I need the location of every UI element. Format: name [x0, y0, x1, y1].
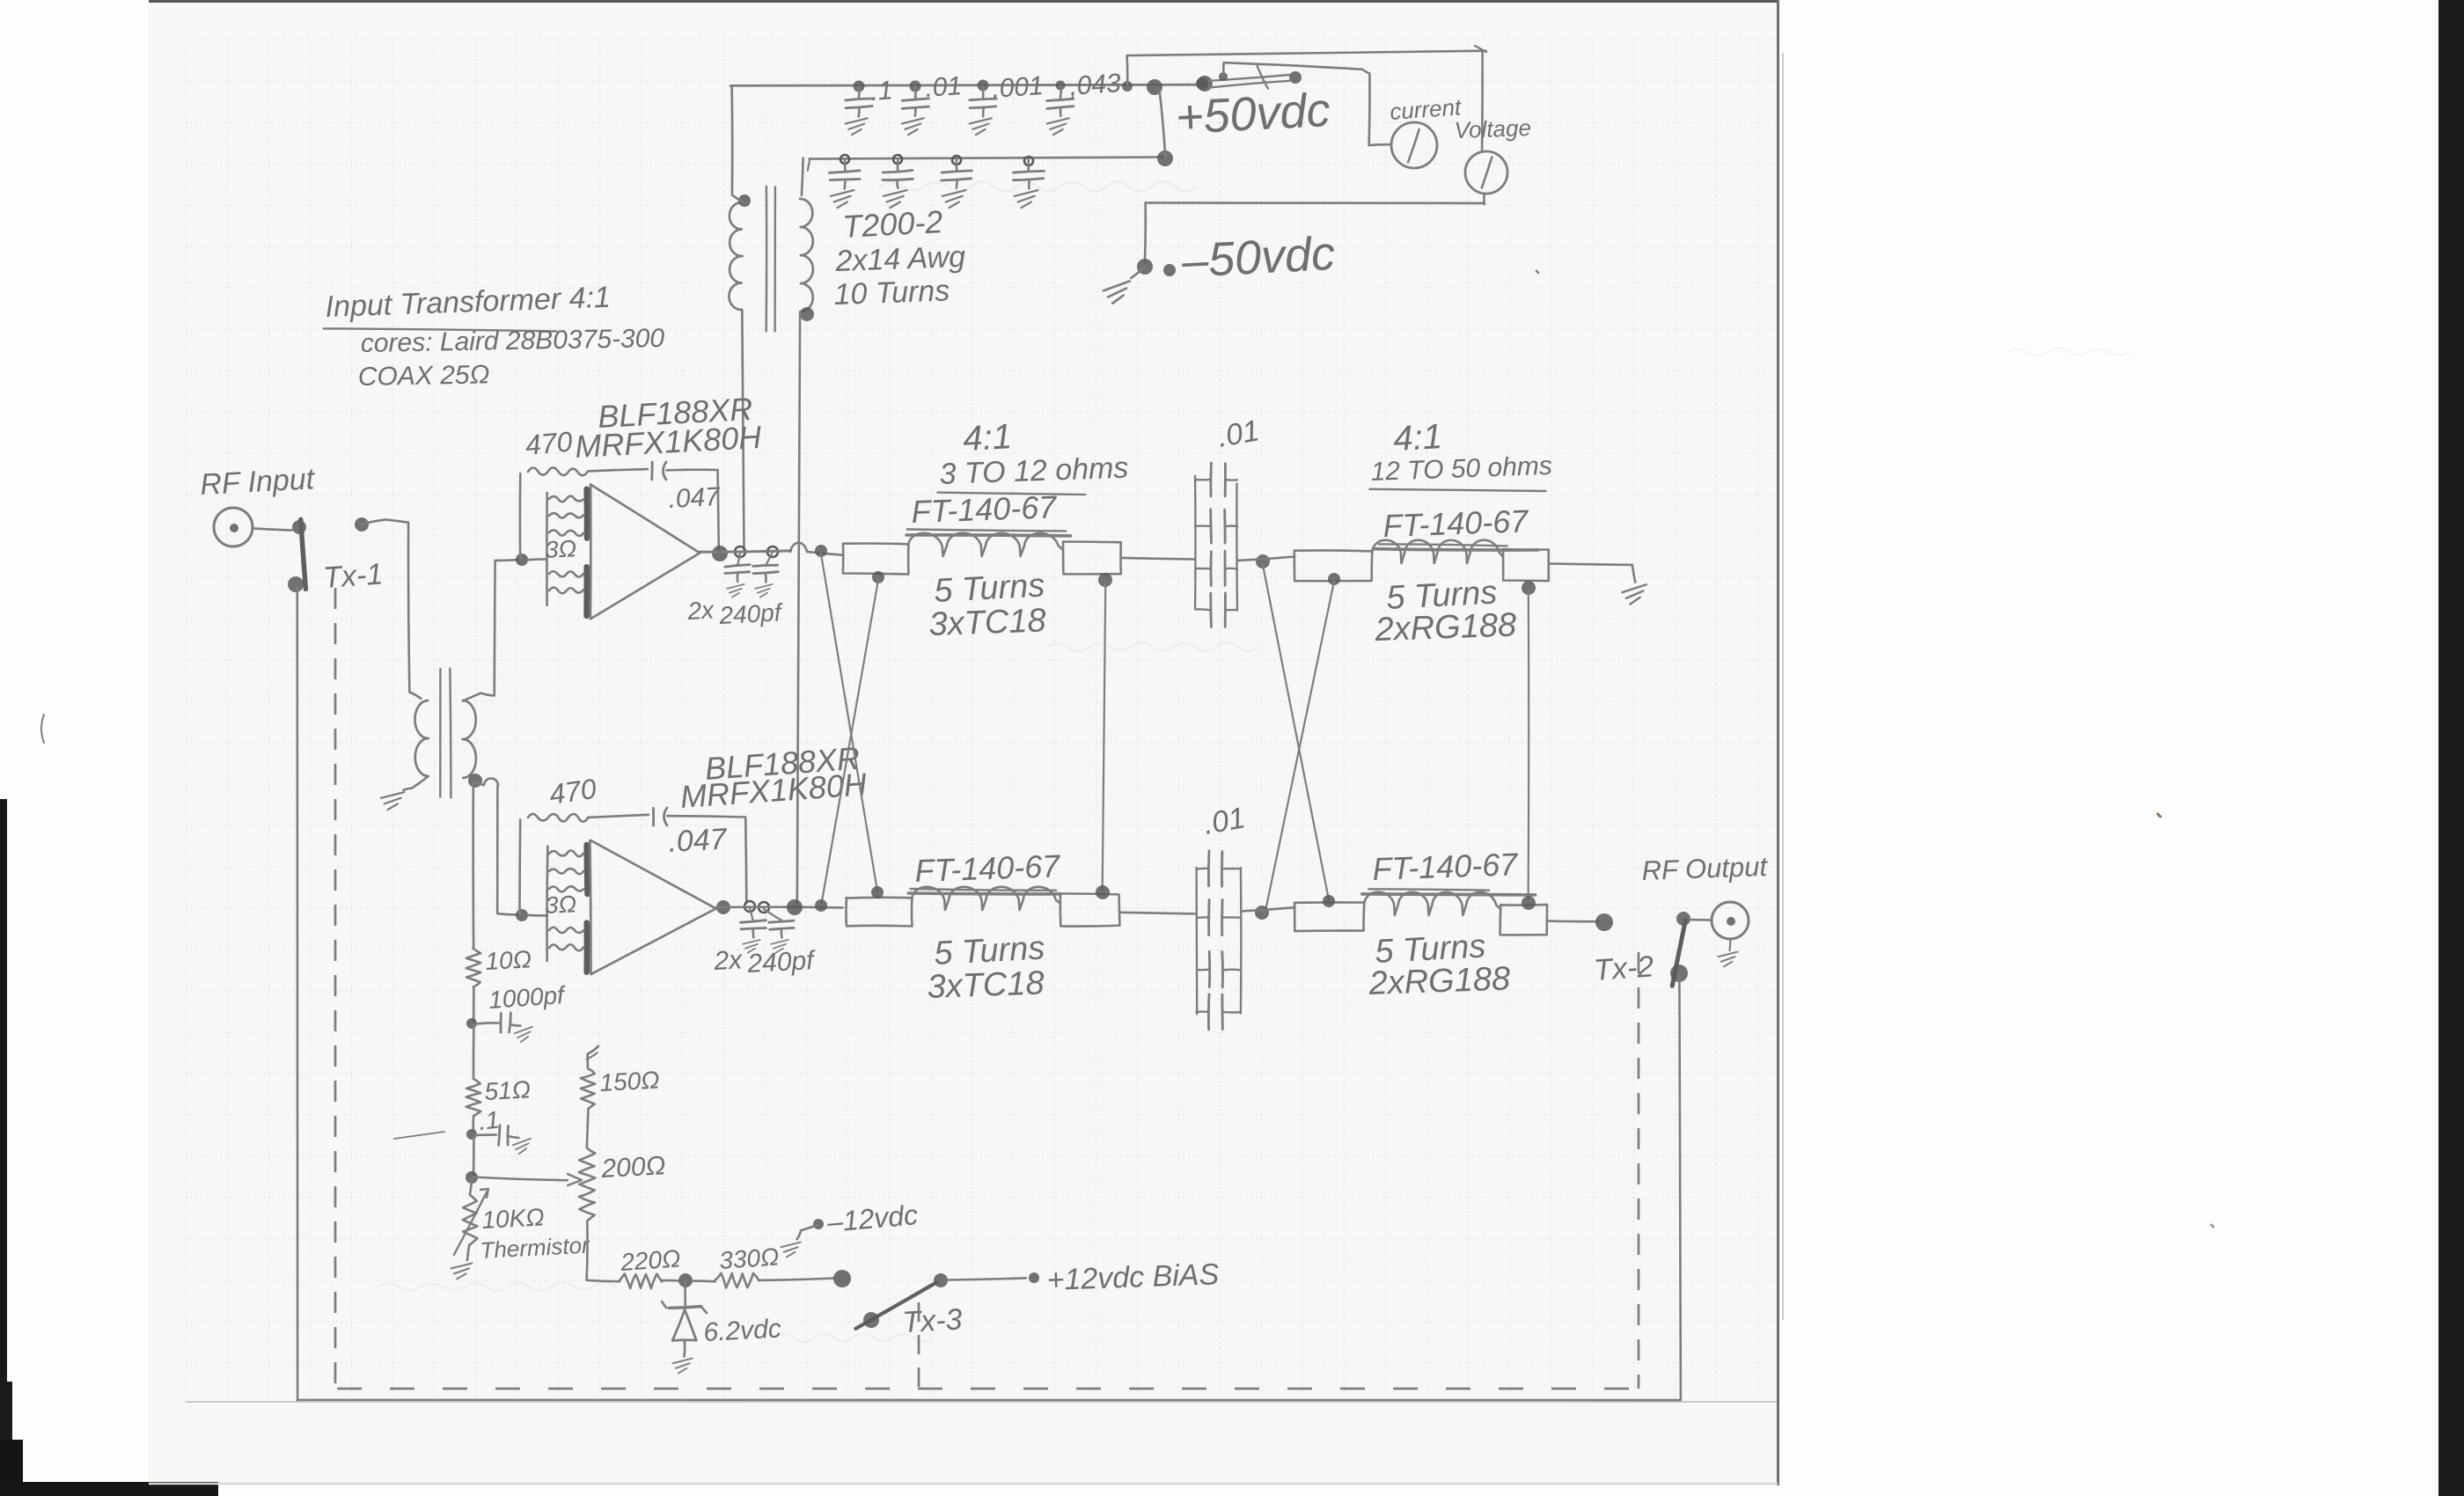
node +12 terminal: [1029, 1272, 1039, 1283]
wire X cross right B: [1265, 581, 1334, 910]
wire T5 out to C10: [1120, 913, 1197, 914]
transformer T4 right box: [1503, 549, 1549, 581]
node chain B: [466, 1129, 477, 1140]
label Tx-2: [1593, 950, 1655, 987]
capacitor C11 .1 bypass: [846, 76, 894, 135]
transformer T4 core bar: [1373, 549, 1538, 550]
svg-text:.01: .01: [1201, 801, 1248, 841]
wire enclosure dashed right: [1638, 952, 1640, 1389]
wire U2 node chain: [472, 782, 474, 948]
svg-text:Voltage: Voltage: [1454, 114, 1531, 143]
wire T6 out: [1547, 920, 1598, 922]
capacitor C6 feedback: [653, 808, 667, 825]
transformer T4 winding: [1372, 540, 1503, 563]
meter M2 voltage: [1454, 114, 1531, 194]
label T6 core: [1368, 846, 1520, 890]
label R4 3ohm: [545, 891, 577, 919]
wire T3 bottom to T5: [1103, 582, 1106, 889]
label C4 C5 2x 240pf: [686, 596, 785, 629]
resistor R7 150ohm: [581, 1069, 595, 1109]
label RF Input: [199, 462, 316, 502]
wire enclosure dashed left: [334, 588, 337, 1389]
node -12 terminal: [813, 1219, 824, 1229]
svg-text:1000pf: 1000pf: [488, 981, 568, 1014]
label R7 150ohm: [599, 1066, 661, 1096]
transformer T6 core bar: [1362, 894, 1536, 895]
svg-text:FT-140-67: FT-140-67: [1382, 502, 1530, 544]
thermistor RT1 10K: [454, 1179, 488, 1261]
svg-text:3xTC18: 3xTC18: [928, 602, 1046, 643]
svg-text:220Ω: 220Ω: [619, 1244, 681, 1276]
wire bus2 to T1 secondary: [802, 158, 803, 196]
ground C11: [514, 1027, 534, 1043]
wire bus2 right riser: [1160, 91, 1166, 158]
node T3 upper wire X: [815, 545, 827, 557]
svg-text:.01: .01: [924, 71, 963, 103]
transformer T6 left box: [1294, 902, 1364, 931]
svg-text:.001: .001: [991, 71, 1045, 104]
label C6 .047: [667, 823, 728, 859]
svg-text:330Ω: 330Ω: [718, 1243, 780, 1274]
wire T3 out to C9: [1122, 558, 1194, 560]
resistor R2 gate 3ohm bank: [549, 496, 583, 594]
capacitor C24 bypass: [1014, 159, 1045, 208]
wire T1 left winding to upper drain: [742, 310, 744, 550]
wire bias 1: [662, 1280, 678, 1282]
label T3 turns: [928, 567, 1046, 643]
wire X cross right A: [1263, 563, 1329, 899]
capacitor C22 bypass: [883, 159, 913, 208]
label T5 core: [911, 847, 1062, 891]
svg-text:RF Input: RF Input: [199, 462, 316, 502]
wire bias 2: [692, 1280, 715, 1282]
wire pot bottom: [587, 1221, 620, 1281]
svg-text:2x: 2x: [686, 596, 715, 625]
resistor R1 470 feedback: [528, 467, 588, 475]
node -50vdc terminal: [1131, 259, 1176, 278]
node chain C: [466, 1171, 478, 1184]
label R3 470: [547, 773, 598, 810]
wire chain 2: [473, 1025, 475, 1079]
svg-text:–50vdc: –50vdc: [1179, 227, 1336, 288]
node U2 input: [516, 909, 528, 921]
svg-text:200Ω: 200Ω: [600, 1151, 667, 1184]
node T5 in top: [871, 886, 884, 898]
label -12vdc: [825, 1199, 919, 1238]
label input transformer note: [324, 281, 665, 392]
wire U2 input rail: [527, 847, 547, 962]
svg-text:current: current: [1389, 93, 1463, 125]
transistor Q1 gate bars: [583, 489, 590, 616]
label R6 51ohm: [484, 1075, 532, 1105]
capacitor C3 feedback: [652, 462, 666, 480]
wire U1 feedback left riser: [519, 473, 522, 560]
transformer T3 right box: [1063, 542, 1121, 575]
wire -12 to ground: [797, 1225, 819, 1240]
svg-text:2xRG188: 2xRG188: [1368, 960, 1511, 1002]
svg-text:240pf: 240pf: [746, 946, 817, 979]
svg-text:150Ω: 150Ω: [599, 1066, 661, 1096]
wire C9 to T4: [1237, 557, 1294, 561]
resistor R10 330ohm: [715, 1273, 759, 1288]
wire TX2 to bottom return: [1679, 977, 1681, 1399]
label C10 .01: [1201, 801, 1248, 841]
svg-text:470: 470: [547, 773, 598, 810]
svg-text:.01: .01: [1215, 414, 1262, 454]
relay TX1 fixed contact B: [355, 517, 369, 532]
node T2 secondary bottom: [468, 774, 482, 788]
label R9 220ohm: [619, 1244, 681, 1276]
ground J3: [1718, 952, 1737, 967]
transformer T2 input left winding: [409, 693, 429, 777]
resistor R6 51ohm: [466, 1079, 481, 1116]
node T3 in bottom: [872, 571, 884, 583]
wire R7 to pot: [587, 1110, 589, 1148]
wire T4 out to ground: [1549, 564, 1635, 583]
capacitor C10 .01 stack: [1197, 851, 1242, 1030]
label U1 part: [574, 391, 763, 465]
svg-text:10Ω: 10Ω: [485, 945, 532, 975]
label D1 6.2vdc: [703, 1314, 782, 1347]
wire feedback: [588, 469, 648, 471]
relay TX3 armature: [855, 1283, 935, 1329]
op-amp U2 BLF188XR triangle: [590, 840, 715, 974]
diode D1 zener 6.2v: [662, 1281, 707, 1356]
wire feedback right: [667, 470, 719, 550]
relay TX2 fixed contact: [1676, 912, 1690, 926]
ground T2 primary: [381, 792, 405, 810]
transformer T4 left box: [1294, 550, 1373, 581]
svg-text:10KΩ: 10KΩ: [481, 1203, 546, 1234]
label R10 330ohm: [718, 1243, 780, 1274]
svg-text:.1: .1: [477, 1106, 500, 1135]
capacitor C8 240pf: [764, 909, 795, 953]
relay TX1 armature: [288, 520, 305, 593]
wire bias out: [949, 1278, 1026, 1280]
capacitor C12 .1: [476, 1126, 519, 1146]
svg-text:cores: Laird 28B0375-300: cores: Laird 28B0375-300: [361, 324, 665, 358]
transformer T1 T200-2 core: [766, 187, 775, 332]
svg-text:10 Turns: 10 Turns: [833, 274, 950, 312]
svg-text:+50vdc: +50vdc: [1174, 84, 1331, 144]
ground RT1: [451, 1263, 473, 1279]
svg-text:FT-140-67: FT-140-67: [914, 847, 1062, 889]
capacitor C14 ,043 bypass: [1047, 69, 1122, 135]
wire T2 primary to ground: [403, 776, 428, 789]
svg-text:COAX 25Ω: COAX 25Ω: [358, 360, 490, 392]
wire U1 input rail: [527, 493, 546, 605]
wire decoupling bus 2: [808, 150, 1173, 171]
label C9 .01: [1215, 414, 1262, 454]
potentiometer R8 200ohm: [579, 1148, 596, 1221]
label T6 turns: [1368, 928, 1511, 1002]
wire J3 to ground: [1728, 939, 1731, 950]
wire enclosure dashed bottom: [337, 1388, 1639, 1390]
node bias A: [678, 1273, 693, 1287]
label TLT2 core: [1379, 502, 1530, 546]
svg-text:.1: .1: [869, 76, 893, 106]
svg-text:3Ω: 3Ω: [545, 535, 577, 563]
wire X cross left B: [822, 579, 879, 903]
transformer T1 T200-2 right winding: [800, 199, 814, 321]
svg-text:Tx-3: Tx-3: [901, 1302, 963, 1339]
wire 150ohm top flag: [587, 1046, 598, 1068]
node T4 in bottom: [1328, 573, 1340, 585]
resistor R9 220ohm: [620, 1274, 662, 1289]
wire chain 4: [473, 1137, 475, 1176]
wire T4 bottom to T6: [1527, 590, 1529, 899]
svg-text:,043: ,043: [1068, 69, 1122, 101]
label TLT2 impedance: [1369, 451, 1552, 491]
label R2 3ohm: [545, 535, 577, 563]
op-amp U1 BLF188XR triangle: [590, 485, 700, 620]
label U2 part: [679, 740, 869, 815]
wire U2 feedback left riser: [518, 820, 521, 915]
label C12 .1: [477, 1106, 500, 1135]
label +50vdc: [1174, 84, 1331, 144]
wire TX1 to input transformer: [362, 519, 410, 692]
transformer T3 core bar: [906, 533, 1071, 538]
label Tx-1: [322, 557, 384, 595]
label Tx-3: [901, 1302, 963, 1339]
svg-text:.047: .047: [668, 482, 722, 514]
svg-text:240pf: 240pf: [718, 598, 785, 629]
svg-text:3Ω: 3Ω: [545, 891, 577, 919]
wire chain 3: [472, 1116, 474, 1132]
wire C10 to T6: [1241, 907, 1294, 911]
label C3 .047: [668, 482, 722, 514]
svg-text:2x14 Awg: 2x14 Awg: [834, 240, 966, 278]
svg-text:3xTC18: 3xTC18: [927, 964, 1045, 1006]
wire wiper: [473, 1174, 583, 1185]
wire +50V top bus: [730, 76, 1213, 95]
svg-text:RF Output: RF Output: [1641, 851, 1769, 886]
wire bias 3: [759, 1279, 834, 1280]
relay TX3 fixed contact: [934, 1273, 948, 1287]
wire T1 right winding to lower drain: [797, 312, 800, 905]
transformer T5 winding: [912, 887, 1060, 910]
wire U1 output: [700, 543, 843, 555]
wire U2 feedback: [588, 815, 649, 818]
transformer T5 right box: [1060, 893, 1120, 926]
transformer T3 left box: [843, 544, 909, 575]
svg-text:470: 470: [524, 425, 574, 461]
capacitor C13 .001 bypass: [970, 71, 1045, 135]
capacitor C23 bypass: [942, 159, 972, 209]
wire meter loop inner: [1219, 62, 1390, 145]
svg-text:4:1: 4:1: [962, 417, 1013, 458]
label +12vdc BiAS: [1046, 1258, 1220, 1297]
node U2 output: [716, 900, 769, 914]
capacitor C12 .01 bypass: [902, 71, 963, 135]
node T5 lower wire X: [815, 899, 827, 912]
label R1 470: [524, 425, 574, 461]
svg-text:6.2vdc: 6.2vdc: [703, 1314, 782, 1347]
wire ground return bottom: [298, 1399, 1682, 1402]
svg-text:2x: 2x: [713, 945, 744, 976]
label C7 C8 2x 240pf: [713, 945, 817, 979]
wire T2 secondary top to U1 input: [463, 560, 519, 701]
wire U2 output: [716, 906, 843, 908]
svg-text:+12vdc BiAS: +12vdc BiAS: [1046, 1258, 1220, 1297]
label TLT1 core: [907, 488, 1067, 531]
relay TX1 fixed contact A: [292, 520, 306, 534]
svg-text:4:1: 4:1: [1392, 417, 1443, 458]
svg-text:T200-2: T200-2: [841, 203, 943, 245]
label C11 1000pf: [488, 981, 568, 1014]
label TLT1 ratio: [962, 417, 1013, 458]
svg-text:Tx-1: Tx-1: [322, 557, 384, 595]
ground C12: [512, 1139, 532, 1155]
label RT1: [480, 1203, 591, 1264]
node C9 out: [1256, 554, 1270, 568]
node T6 out: [1595, 913, 1613, 931]
wire meter loop outer: [1127, 46, 1486, 262]
label -50vdc: [1179, 227, 1336, 288]
meter M1 current: [1389, 93, 1463, 168]
wire bus to T1 left winding: [732, 86, 743, 202]
label T1 value: [833, 203, 966, 312]
resistor R3 470 feedback: [528, 814, 588, 822]
transformer T5 left box: [846, 898, 912, 927]
transformer T6 right box: [1500, 905, 1548, 935]
wire ground return left: [296, 588, 298, 1400]
connector J3 RF output BNC: [1690, 902, 1749, 939]
transformer T3 winding: [908, 533, 1063, 556]
node T5 out top: [1096, 885, 1110, 899]
svg-text:FT-140-67: FT-140-67: [1372, 846, 1520, 887]
node T3 out bottom: [1098, 573, 1112, 587]
capacitor C21 bypass: [829, 160, 860, 209]
resistor R4 gate 3ohm bank: [549, 850, 583, 950]
transformer T5 core bar: [908, 891, 1060, 896]
relay TX2 armature: [1670, 920, 1688, 986]
svg-text:51Ω: 51Ω: [484, 1075, 532, 1105]
label T4 turns: [1374, 574, 1517, 649]
node TX3 common: [833, 1270, 851, 1287]
capacitor C5 240pf: [753, 553, 779, 597]
ground -50vdc: [1103, 281, 1132, 304]
ground -12vdc: [781, 1243, 800, 1258]
connector J2 RF input BNC: [214, 508, 292, 546]
capacitor C9 .01 stack: [1195, 463, 1237, 627]
node T4 out bottom: [1522, 581, 1536, 595]
capacitor C11 1000pf: [476, 1013, 520, 1032]
ground T4 output: [1622, 584, 1647, 605]
svg-text:Tx-2: Tx-2: [1593, 950, 1655, 987]
wire T2 secondary bottom to U2 input: [475, 779, 519, 915]
node T1 to U2 drain junction: [787, 899, 803, 915]
node chain A: [466, 1018, 477, 1029]
connector J1 +50V feed: [1196, 66, 1302, 91]
node T6 in top: [1323, 895, 1335, 907]
label R8 200ohm: [600, 1151, 667, 1184]
node C10 out: [1255, 906, 1269, 920]
capacitor C4 240pf: [725, 553, 750, 597]
wire enclosure dashed tx3: [918, 1302, 920, 1390]
svg-text:FT-140-67: FT-140-67: [911, 488, 1059, 530]
label TLT1 impedance: [938, 451, 1129, 495]
transformer T1 T200-2 left winding: [729, 194, 751, 310]
resistor R5 10ohm: [466, 949, 481, 987]
node U1 input: [516, 554, 528, 566]
node T6 top right: [1522, 896, 1536, 910]
transformer T2 right winding: [463, 700, 476, 778]
ground D1: [672, 1359, 692, 1374]
capacitor C7 240pf: [741, 908, 766, 952]
transformer T2 core: [440, 669, 451, 798]
label RF Output: [1641, 851, 1769, 886]
wire X cross left A: [821, 554, 877, 891]
transformer T6 winding: [1364, 892, 1500, 915]
svg-text:2xRG188: 2xRG188: [1374, 606, 1517, 649]
label TLT2 ratio: [1392, 417, 1443, 458]
wire chain 1: [473, 987, 475, 1022]
wire U2 feedback right: [667, 816, 746, 903]
node U1 output: [712, 546, 778, 561]
transistor Q2 gate bars: [583, 845, 590, 972]
svg-text:3 TO 12 ohms: 3 TO 12 ohms: [939, 451, 1129, 491]
label T5 turns: [927, 929, 1045, 1006]
label R5 10ohm: [485, 945, 532, 975]
svg-text:.047: .047: [667, 823, 728, 859]
